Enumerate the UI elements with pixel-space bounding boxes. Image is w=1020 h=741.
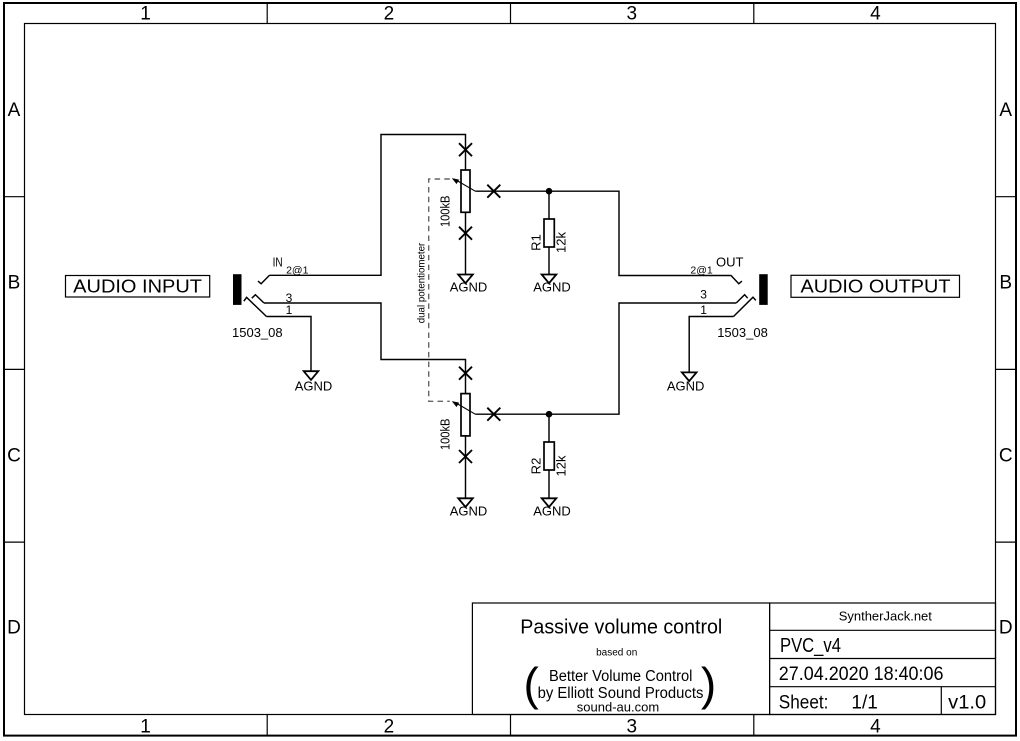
- pin marker X (top terminal): [459, 143, 472, 156]
- svg-text:Sheet:: Sheet:: [779, 693, 829, 714]
- svg-text:3: 3: [627, 717, 638, 738]
- svg-text:1: 1: [140, 717, 151, 738]
- wire: junction to R2: [548, 414, 550, 442]
- pin 2 tip contact: [731, 275, 742, 284]
- svg-text:AGND: AGND: [295, 378, 333, 393]
- wire: R1 to ground: [548, 247, 550, 275]
- svg-text:D: D: [999, 618, 1013, 639]
- pin marker X (bottom terminal): [459, 450, 472, 463]
- svg-text:Better Volume Control: Better Volume Control: [549, 668, 693, 685]
- wire: input sleeve to ground: [267, 317, 312, 372]
- svg-text:C: C: [999, 445, 1013, 466]
- wiper arrow: [452, 178, 459, 183]
- ground AGND (P1): [450, 275, 488, 295]
- svg-text:AUDIO INPUT: AUDIO INPUT: [73, 276, 202, 297]
- svg-text:4: 4: [870, 717, 881, 738]
- svg-text:SyntherJack.net: SyntherJack.net: [839, 609, 933, 624]
- svg-text:sound-au.com: sound-au.com: [577, 699, 659, 714]
- wiper arrow: [452, 401, 459, 406]
- sheet title box: [472, 603, 769, 715]
- pin 1 sleeve lever: [244, 297, 267, 316]
- svg-text:IN: IN: [273, 255, 283, 270]
- svg-text:R1: R1: [529, 234, 544, 251]
- svg-text:based on: based on: [596, 648, 637, 659]
- svg-text:4: 4: [870, 4, 881, 25]
- svg-text:3: 3: [627, 4, 638, 25]
- potentiometer P1 100kB (upper gang): [438, 143, 501, 240]
- wire: P2 wiper to output ring: [475, 303, 736, 414]
- svg-text:3: 3: [700, 287, 707, 301]
- wire: P1 bottom to ground: [465, 212, 467, 274]
- svg-text:AUDIO OUTPUT: AUDIO OUTPUT: [801, 276, 951, 297]
- node junction (P2 wiper / R2): [546, 411, 553, 418]
- wire: input tip to pot P1 top: [270, 135, 466, 276]
- potentiometer P2 100kB (lower gang): [438, 367, 501, 463]
- wire: P2 bottom to ground: [465, 436, 467, 498]
- svg-text:A: A: [999, 100, 1012, 121]
- svg-text:PVC_v4: PVC_v4: [780, 635, 841, 657]
- flag AUDIO OUTPUT: [791, 275, 960, 297]
- svg-text:1: 1: [700, 303, 707, 317]
- pin marker X (wiper): [487, 408, 500, 421]
- svg-text:): ): [701, 658, 716, 710]
- node junction (P1 wiper / R1): [546, 188, 553, 195]
- pin 3 ring contact: [736, 295, 748, 303]
- svg-text:AGND: AGND: [450, 503, 488, 518]
- svg-text:12k: 12k: [554, 232, 569, 253]
- svg-text:AGND: AGND: [450, 280, 488, 295]
- wire: P1 wiper to output tip: [475, 191, 731, 275]
- svg-text:(: (: [524, 658, 540, 710]
- ground AGND (R2): [533, 498, 571, 518]
- flag AUDIO INPUT: [66, 276, 210, 298]
- svg-text:2: 2: [384, 717, 395, 738]
- svg-text:100kB: 100kB: [438, 419, 453, 451]
- pin 3 ring contact: [252, 295, 264, 303]
- wire: junction to R1: [548, 191, 550, 219]
- jack J2 1503_08 (output): [690, 255, 767, 341]
- svg-text:A: A: [8, 100, 21, 121]
- svg-text:v1.0: v1.0: [948, 693, 986, 714]
- svg-text:AGND: AGND: [533, 280, 571, 295]
- pin marker X (wiper): [487, 185, 500, 198]
- resistor R2 12k: [529, 442, 569, 476]
- body: [461, 170, 470, 212]
- svg-text:R2: R2: [529, 458, 544, 475]
- jack J1 1503_08 (input): [232, 255, 309, 341]
- svg-text:1503_08: 1503_08: [232, 325, 283, 340]
- svg-text:B: B: [999, 273, 1012, 294]
- svg-text:C: C: [7, 445, 21, 466]
- svg-text:B: B: [8, 273, 21, 294]
- svg-text:AGND: AGND: [667, 379, 705, 394]
- ground AGND (input jack): [295, 371, 333, 393]
- ground AGND (P2): [450, 498, 488, 518]
- resistor R1 12k: [529, 219, 569, 253]
- svg-text:100kB: 100kB: [438, 196, 453, 228]
- gang link dashed line (dual potentiometer): [417, 179, 450, 401]
- wire: input ring to pot P2 top: [264, 303, 466, 394]
- svg-text:1503_08: 1503_08: [717, 325, 768, 340]
- svg-text:1: 1: [286, 303, 293, 317]
- svg-text:2@1: 2@1: [690, 265, 712, 277]
- svg-text:D: D: [7, 618, 21, 639]
- pin marker X (bottom terminal): [459, 227, 472, 240]
- svg-text:AGND: AGND: [533, 503, 571, 518]
- svg-text:Passive volume control: Passive volume control: [520, 616, 722, 638]
- svg-text:1: 1: [140, 4, 151, 25]
- ground AGND (R1): [533, 275, 571, 295]
- svg-text:2: 2: [384, 4, 395, 25]
- svg-text:12k: 12k: [554, 455, 569, 476]
- pin marker X (top terminal): [459, 367, 472, 380]
- svg-text:27.04.2020 18:40:06: 27.04.2020 18:40:06: [779, 664, 944, 685]
- svg-text:OUT: OUT: [716, 255, 744, 270]
- ground AGND (output jack): [667, 372, 705, 393]
- wire: output sleeve to ground: [689, 317, 733, 373]
- svg-text:1/1: 1/1: [851, 693, 877, 714]
- body: [461, 394, 470, 436]
- pin 2 tip contact: [258, 275, 270, 284]
- pin 1 sleeve lever: [734, 297, 756, 316]
- title block: [770, 603, 996, 715]
- svg-text:dual potentiometer: dual potentiometer: [417, 242, 428, 323]
- wire: R2 to ground: [548, 470, 550, 498]
